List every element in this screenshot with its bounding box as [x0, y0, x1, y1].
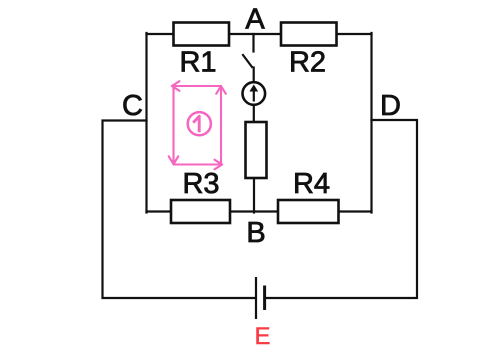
wire right bridge vertical D side — [370, 33, 372, 213]
wire left bridge vertical C side — [145, 33, 147, 213]
wire node D branch — [266, 120, 417, 298]
svg-text:A: A — [245, 4, 265, 36]
wire source to R5 — [253, 105, 255, 123]
pink mesh loop 1 — [169, 81, 226, 169]
current source circle — [243, 82, 266, 105]
svg-text:C: C — [122, 90, 143, 122]
wire R5 to node B — [253, 177, 255, 213]
wire node C branch — [103, 121, 255, 299]
loop bottom edge arrow right — [174, 163, 222, 165]
current source arrow — [249, 85, 258, 102]
svg-text:R4: R4 — [293, 168, 330, 200]
wire top A row — [147, 33, 372, 35]
battery E long plate — [255, 277, 257, 319]
loop right edge arrow up — [220, 87, 222, 164]
svg-text:R1: R1 — [179, 47, 216, 79]
resistor R1 — [174, 23, 230, 46]
wire stub below node A — [252, 34, 254, 52]
wire bottom B row — [147, 210, 372, 212]
resistor R2 — [281, 23, 337, 46]
resistor R5 vertical — [246, 122, 267, 178]
switch S blade — [243, 55, 252, 67]
loop label circled 1 — [188, 112, 211, 135]
svg-text:R2: R2 — [289, 47, 326, 79]
loop left edge arrow down — [172, 86, 174, 164]
wire switch to source — [253, 68, 255, 83]
svg-text:D: D — [380, 90, 401, 122]
resistor R4 — [278, 200, 339, 223]
loop top edge arrow left — [174, 85, 222, 87]
svg-text:B: B — [246, 217, 265, 249]
svg-text:R3: R3 — [182, 168, 219, 200]
resistor R3 — [171, 200, 230, 223]
svg-text:E: E — [254, 323, 270, 349]
battery E short plate — [263, 286, 266, 311]
